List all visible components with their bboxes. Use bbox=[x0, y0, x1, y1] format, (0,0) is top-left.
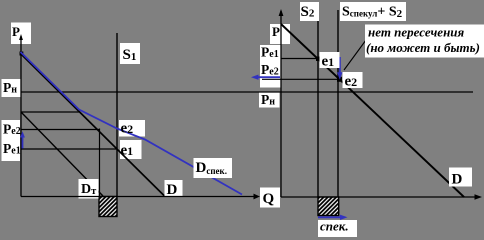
label box PH right bbox=[259, 93, 280, 108]
left Q axis bbox=[21, 196, 255, 198]
svg-text:нет пересечения: нет пересечения bbox=[368, 25, 465, 40]
svg-text:P: P bbox=[272, 24, 280, 39]
left current demand curve Dt bbox=[21, 112, 103, 196]
left unlabeled price line y112 bbox=[21, 111, 80, 113]
label box spek right bbox=[318, 220, 357, 237]
right Sspekul+S2 vertical supply line bbox=[337, 10, 339, 197]
label box P left bbox=[11, 23, 31, 45]
label box Dt left (over line) bbox=[79, 179, 99, 199]
blue down arrow e1 to e2 bbox=[339, 57, 341, 74]
svg-text:е2: е2 bbox=[121, 121, 134, 137]
svg-text:спек.: спек. bbox=[320, 219, 349, 234]
blue left arrow at Pe2 level bbox=[256, 76, 280, 78]
label box D left (over line) bbox=[165, 180, 183, 196]
svg-text:Q: Q bbox=[263, 191, 275, 207]
svg-text:е2: е2 bbox=[345, 74, 358, 90]
blue up arrow Pe1 to Pe2 on left axis bbox=[22, 136, 24, 149]
svg-text:D: D bbox=[167, 182, 178, 198]
label box Q left bbox=[260, 188, 280, 208]
left demand curve D bbox=[21, 54, 165, 197]
svg-text:P: P bbox=[12, 24, 20, 39]
node dot e1 right bbox=[316, 57, 321, 62]
label box e2 right (over line) bbox=[343, 72, 363, 88]
label box e1 left bbox=[120, 140, 142, 159]
label box e1 right (over line) bbox=[320, 52, 340, 68]
right Q axis bbox=[281, 196, 478, 198]
label box note text right bbox=[365, 25, 484, 58]
left Pe2 price line bbox=[21, 129, 100, 131]
left Pe1 price line bbox=[21, 148, 117, 150]
left P axis bbox=[20, 36, 22, 197]
svg-text:(но может и быть): (но может и быть) bbox=[366, 40, 480, 55]
blue speculative demand curve Dspek bbox=[21, 52, 243, 195]
right S2 vertical supply line bbox=[317, 21, 319, 197]
left S1 vertical supply line bbox=[116, 33, 118, 196]
label box Sspekul+S2 right bbox=[340, 2, 406, 21]
label box S1 left bbox=[120, 43, 140, 64]
right Pe2 price line bbox=[262, 78, 340, 80]
label box PH left bbox=[2, 79, 22, 97]
label box P right bbox=[270, 24, 290, 44]
right demand curve D bbox=[281, 24, 464, 197]
label box Dspek left (over line) bbox=[194, 158, 233, 178]
label box Pe2 right bbox=[260, 66, 281, 88]
label box e2 left bbox=[119, 120, 145, 137]
right Pe1 price line bbox=[281, 58, 318, 60]
label box Pe1 right bbox=[260, 45, 281, 66]
label box Pe2/Pe1 left bbox=[2, 120, 21, 161]
blue right arrow under right hatched box bbox=[318, 216, 342, 218]
left hatched shortage box bbox=[99, 197, 117, 217]
label box D right (over line) bbox=[449, 168, 472, 187]
node dot at start of D bbox=[20, 52, 24, 56]
svg-text:е1: е1 bbox=[322, 54, 335, 70]
right P axis bbox=[280, 11, 282, 197]
node dot e2 right bbox=[337, 77, 342, 82]
long PH price line across both panels bbox=[21, 91, 473, 93]
svg-text:е1: е1 bbox=[121, 143, 134, 159]
label box S2 right bbox=[300, 2, 319, 21]
svg-text:D: D bbox=[452, 172, 463, 188]
left shortage vertical at Qd(Pe2) bbox=[99, 129, 101, 197]
callout leader line to e2 bbox=[344, 40, 366, 70]
right hatched speculation box bbox=[318, 197, 339, 216]
